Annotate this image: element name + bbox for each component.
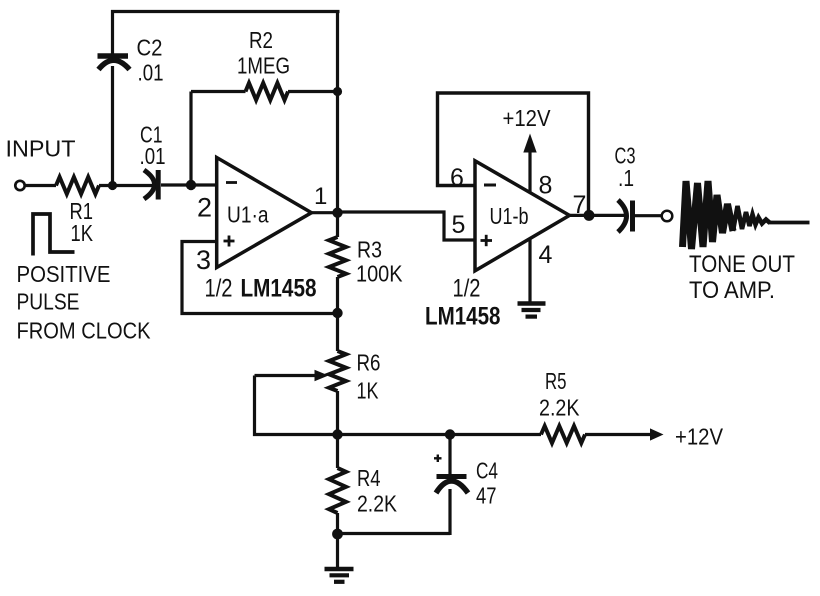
resistor R1: [56, 177, 99, 194]
wire R6 to node: [336, 391, 339, 435]
pulse waveform icon: [33, 214, 75, 256]
svg-text:TONE OUT: TONE OUT: [689, 251, 795, 278]
pin3/R3 junction: [332, 308, 342, 318]
resistor R5: [541, 426, 585, 443]
U1-a output junction: [332, 208, 342, 218]
svg-text:R3: R3: [357, 237, 382, 263]
svg-text:4: 4: [539, 241, 553, 269]
wire C3 to output terminal: [635, 214, 662, 217]
svg-text:1/2: 1/2: [205, 275, 233, 303]
svg-text:5: 5: [452, 211, 466, 239]
svg-text:+12V: +12V: [675, 424, 724, 450]
R3 value label: [356, 237, 403, 287]
svg-text:R5: R5: [545, 368, 567, 394]
wire C4 return: [338, 532, 451, 535]
svg-text:INPUT: INPUT: [6, 136, 76, 162]
wire U1-a out to U1-b pin 5: [338, 212, 475, 240]
output terminal: [662, 211, 673, 222]
U1-b output junction: [584, 210, 595, 221]
wire output to C3: [589, 214, 626, 217]
wire top to R2 node: [336, 10, 339, 92]
svg-text:1MEG: 1MEG: [237, 53, 290, 79]
wire pin 4 to ground: [528, 239, 531, 303]
wire node to ground: [336, 534, 339, 567]
ground (R4): [325, 569, 354, 582]
wire C2 top branch: [111, 10, 114, 55]
wire output node to R3: [336, 213, 339, 237]
svg-text:C4: C4: [476, 458, 498, 484]
svg-text:FROM CLOCK: FROM CLOCK: [17, 318, 152, 344]
R6 value label: [357, 350, 381, 404]
svg-text:2.2K: 2.2K: [357, 491, 398, 517]
R4 value label: [357, 465, 398, 517]
svg-text:R6: R6: [357, 350, 381, 376]
R1 value label: [70, 198, 94, 246]
R4/C4 junction: [332, 529, 343, 540]
svg-text:R2: R2: [249, 27, 273, 53]
wire R4 to ground node: [336, 513, 339, 534]
capacitor C4: [434, 455, 468, 494]
C3 value label: [615, 143, 636, 192]
svg-text:1K: 1K: [71, 220, 94, 246]
svg-text:2.2K: 2.2K: [539, 395, 580, 421]
R2 value label: [237, 27, 290, 79]
C4 junction: [445, 429, 455, 439]
svg-text:POSITIVE: POSITIVE: [17, 261, 111, 287]
top feedback wire: [111, 10, 340, 13]
ground (U1-b): [518, 304, 546, 317]
svg-text:R4: R4: [357, 465, 381, 491]
wire pin 3 loop: [182, 242, 338, 314]
svg-text:C2: C2: [137, 35, 163, 61]
resistor R3: [329, 237, 346, 277]
svg-text:+12V: +12V: [503, 105, 552, 131]
wire C1 to node B: [161, 183, 217, 186]
node B junction: [186, 180, 196, 190]
svg-text:.01: .01: [140, 143, 166, 169]
input terminal: [15, 181, 24, 190]
svg-text:LM1458: LM1458: [425, 303, 501, 331]
resistor R2: [246, 83, 289, 100]
R6 wiper arrow: [255, 370, 329, 382]
R5 value label: [539, 368, 580, 421]
wire input to R1: [25, 184, 56, 187]
wire C4 to return: [448, 489, 451, 535]
wire R2 left: [191, 90, 246, 93]
wire R3 to node: [336, 277, 339, 314]
svg-text:6: 6: [450, 164, 464, 192]
R6/R4/R5 junction: [332, 429, 342, 439]
+12V supply arrow: [523, 134, 536, 193]
svg-text:47: 47: [476, 483, 497, 509]
capacitor C2: [98, 56, 130, 70]
capacitor C3: [618, 200, 633, 232]
svg-text:.01: .01: [138, 60, 164, 86]
C1 value label: [140, 122, 166, 170]
wire U1-a output: [312, 211, 338, 214]
wire node to R5: [338, 433, 542, 436]
wire rail to output node: [336, 92, 339, 214]
svg-text:3: 3: [196, 245, 211, 275]
tone burst waveform: [683, 181, 810, 249]
op-amp U1-b: [475, 161, 570, 271]
wire node to R6: [336, 314, 339, 352]
resistor R4: [329, 468, 346, 513]
svg-text:U1·a: U1·a: [227, 202, 269, 228]
svg-text:PULSE: PULSE: [17, 289, 80, 315]
wire node to R4: [336, 435, 339, 469]
wire wiper loop: [255, 376, 338, 435]
svg-text:U1-b: U1-b: [490, 203, 529, 229]
wire R2 left leg: [189, 92, 192, 186]
potentiometer R6: [329, 351, 346, 391]
R2 rail junction: [333, 87, 342, 96]
C4 value label: [476, 458, 498, 509]
svg-text:TO AMP.: TO AMP.: [689, 277, 775, 304]
svg-text:1K: 1K: [357, 378, 380, 404]
capacitor C1: [144, 170, 158, 200]
wire node to C4: [448, 435, 451, 476]
wire R5 to +12V arrow: [585, 433, 652, 436]
wire pin 6 feedback box: [438, 93, 589, 216]
+12V arrowhead: [650, 428, 664, 440]
svg-text:LM1458: LM1458: [241, 275, 317, 303]
wire R2 right: [288, 90, 338, 93]
svg-text:100K: 100K: [356, 261, 403, 287]
wire R1 to C1: [99, 184, 153, 187]
svg-text:8: 8: [539, 172, 553, 200]
C2 value label: [137, 35, 164, 86]
POSITIVE PULSE FROM CLOCK label: [17, 261, 152, 344]
svg-text:1/2: 1/2: [453, 275, 481, 303]
U1-a part label: [205, 275, 317, 303]
svg-text:.1: .1: [618, 165, 634, 191]
op-amp U1-a: [217, 158, 312, 268]
node A junction: [108, 181, 117, 190]
svg-text:1: 1: [314, 183, 327, 210]
wire C2 to input node: [111, 66, 114, 187]
svg-text:2: 2: [197, 193, 212, 223]
wire U1-b output: [570, 214, 590, 217]
U1-b part label: [425, 275, 501, 331]
